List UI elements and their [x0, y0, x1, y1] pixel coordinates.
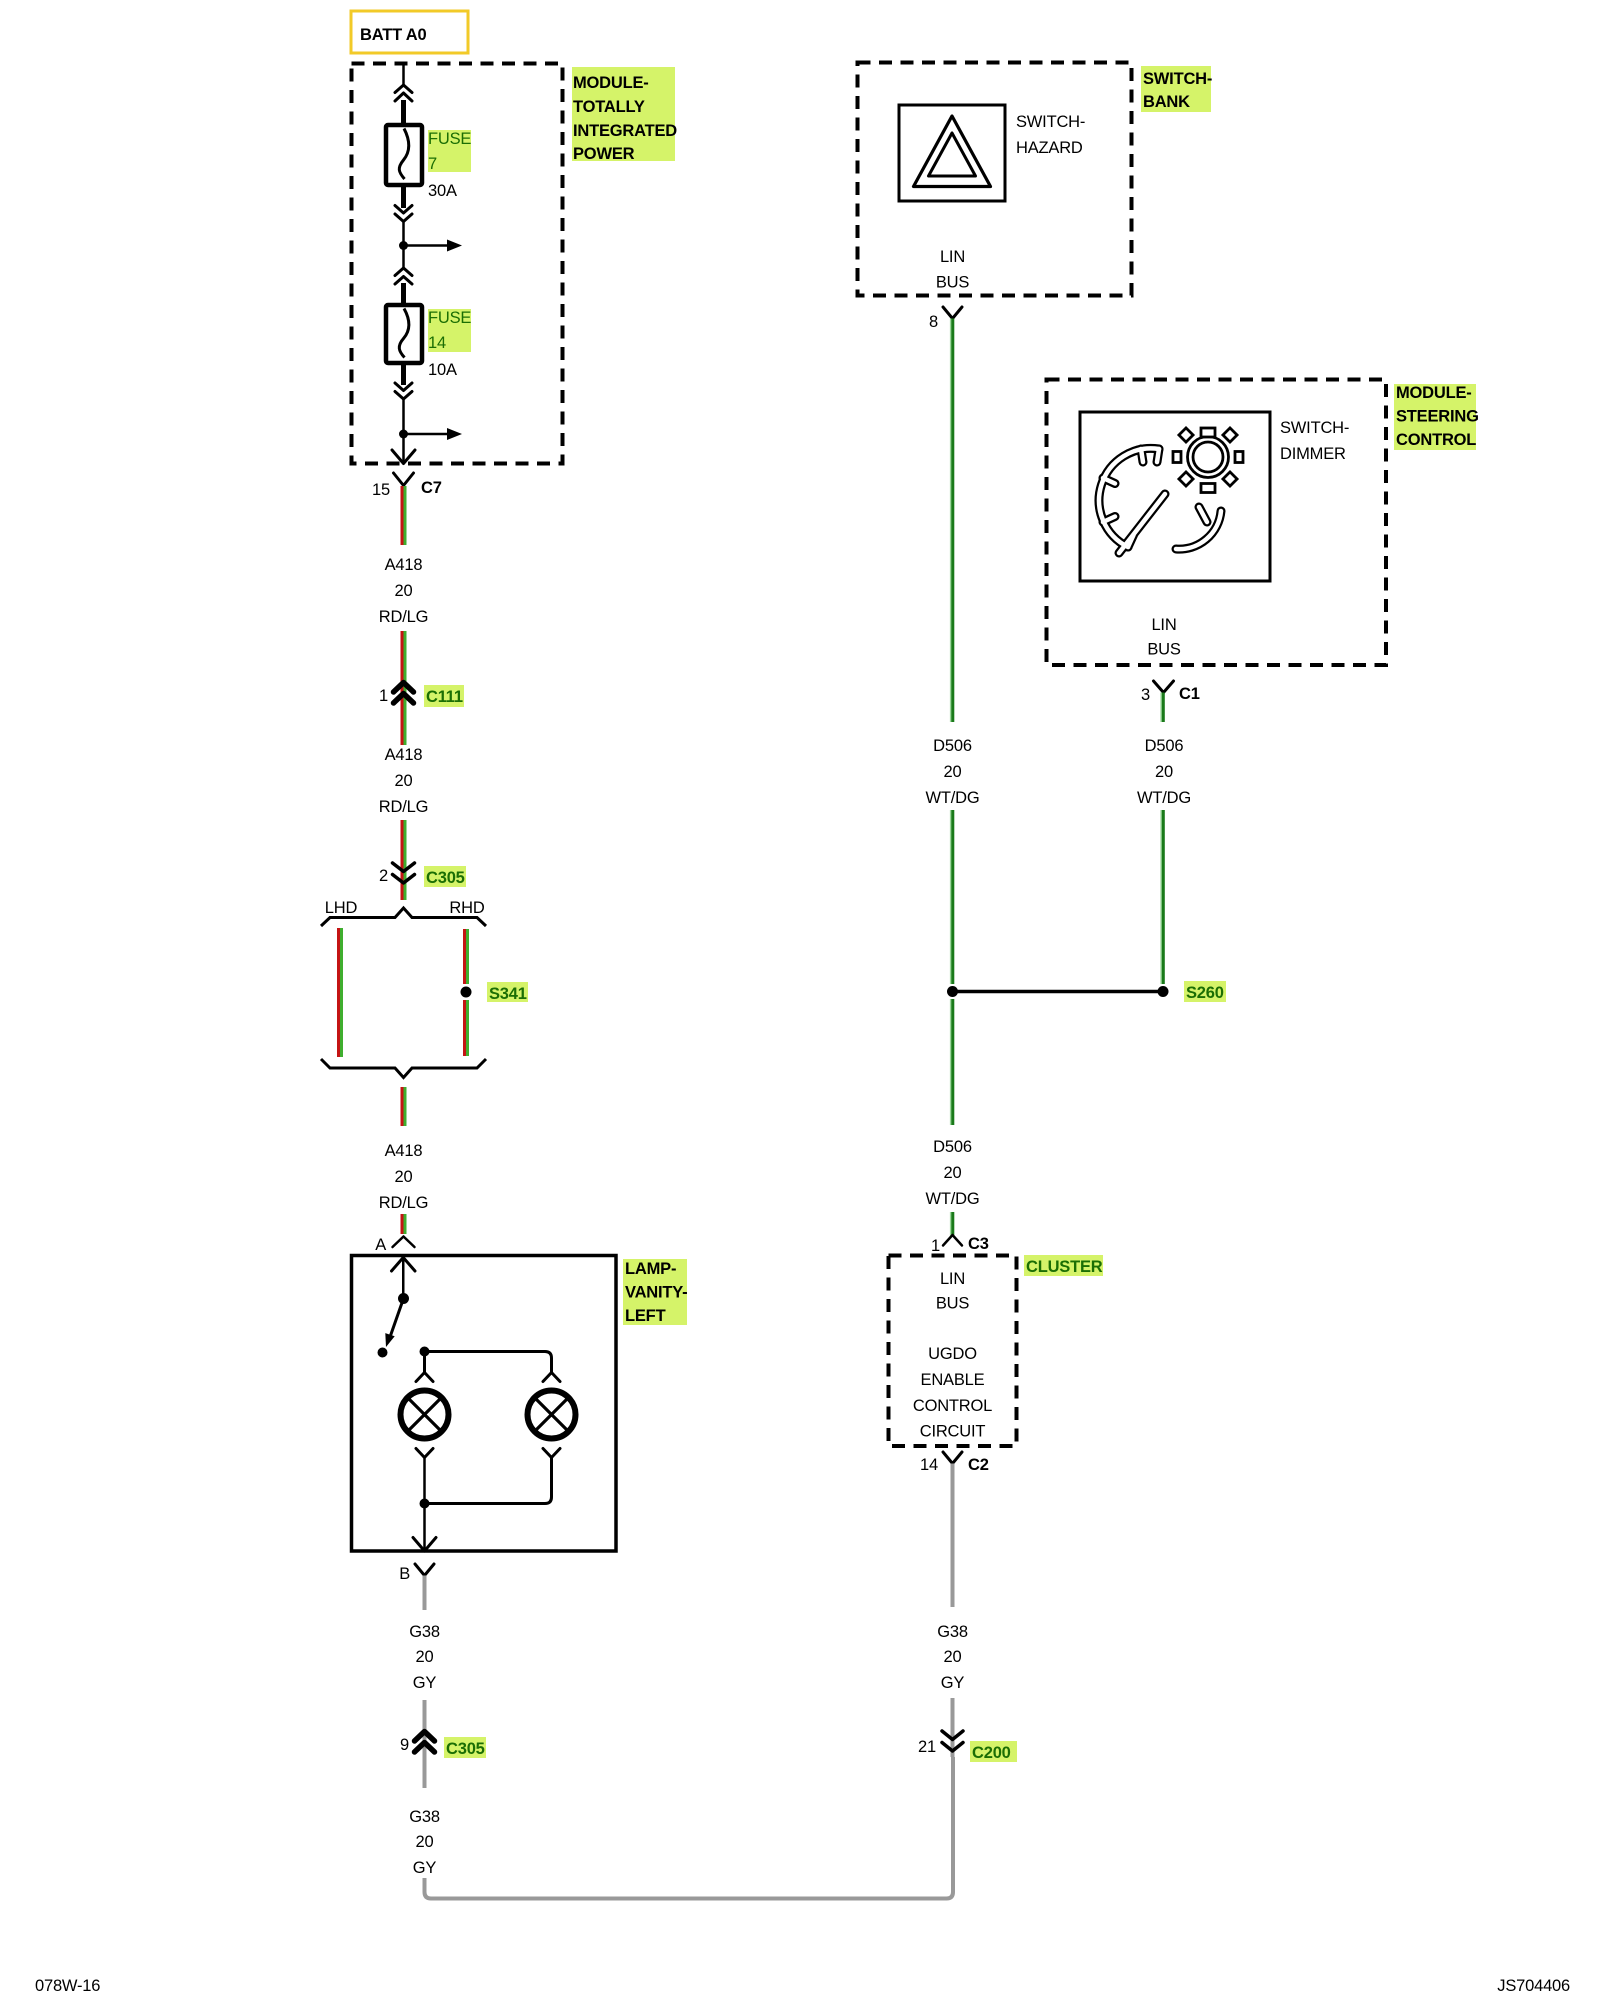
wire to junction — [402, 222, 405, 246]
LIN BUS label in switch-bank — [936, 248, 970, 292]
cluster dashed box — [889, 1256, 1017, 1447]
svg-text:GY: GY — [413, 1674, 437, 1692]
switch-bank label highlight — [1141, 66, 1211, 112]
lamp-vanity-left box — [352, 1256, 617, 1552]
hazard switch caption — [1016, 113, 1085, 157]
svg-text:D506: D506 — [933, 737, 972, 755]
entry arrowhead inside lamp box — [392, 1258, 416, 1272]
svg-text:C3: C3 — [968, 1235, 989, 1253]
svg-text:BUS: BUS — [936, 1295, 970, 1313]
svg-text:078W-16: 078W-16 — [35, 1977, 100, 1995]
svg-text:RD/LG: RD/LG — [379, 1194, 428, 1212]
wire G38 GY segment 1 — [423, 1576, 427, 1611]
connector fork above right lamp — [543, 1373, 560, 1382]
switch blade with motion arrowhead — [385, 1299, 403, 1348]
wire D506 WT/DG to splice — [951, 810, 953, 984]
lamp label text — [625, 1260, 687, 1325]
connector C305 pin 2 — [379, 863, 466, 887]
svg-text:G38: G38 — [937, 1623, 968, 1641]
in-line connector chevrons above fuse 7 — [395, 85, 412, 101]
svg-text:BUS: BUS — [936, 274, 970, 292]
wire D506 WT/DG hazard long segment — [951, 319, 953, 723]
lamp pin B — [399, 1564, 434, 1583]
svg-text:7: 7 — [428, 155, 437, 173]
svg-text:VANITY-: VANITY- — [625, 1284, 687, 1302]
svg-text:CIRCUIT: CIRCUIT — [920, 1423, 986, 1441]
svg-text:20: 20 — [395, 582, 413, 600]
svg-text:A418: A418 — [385, 746, 423, 764]
svg-text:RD/LG: RD/LG — [379, 798, 428, 816]
svg-text:B: B — [399, 1565, 410, 1583]
wire A418 RD/LG segment 1 — [402, 486, 405, 545]
wire to junction below fuse 14 — [402, 399, 405, 434]
svg-text:LAMP-: LAMP- — [625, 1260, 676, 1278]
junction node after fuse 7 — [399, 241, 408, 250]
hazard switch icon — [899, 105, 1005, 201]
wire label D506 20 WT/DG — [926, 1138, 980, 1208]
left lamp return wire — [423, 1458, 426, 1504]
wire to TIPM bottom edge — [402, 434, 405, 462]
top bus wire to right lamp — [425, 1352, 552, 1373]
svg-text:SWITCH-: SWITCH- — [1143, 70, 1212, 88]
LIN BUS label in steering module — [1147, 616, 1181, 659]
wire D506 WT/DG to splice S260 — [1161, 810, 1163, 984]
svg-text:G38: G38 — [409, 1623, 440, 1641]
svg-text:RHD: RHD — [449, 899, 484, 917]
svg-text:21: 21 — [918, 1738, 936, 1756]
connector fork below right lamp — [543, 1449, 560, 1458]
svg-text:WT/DG: WT/DG — [926, 789, 980, 807]
svg-text:BATT A0: BATT A0 — [360, 26, 426, 44]
return junction node — [420, 1499, 430, 1509]
wire A418 RD/LG segment 2 — [402, 631, 405, 745]
svg-text:LEFT: LEFT — [625, 1307, 666, 1325]
svg-text:A418: A418 — [385, 1142, 423, 1160]
switch contact node — [378, 1348, 388, 1358]
wire label D506 20 WT/DG — [1137, 737, 1191, 807]
bottom bus wire from right lamp — [425, 1458, 552, 1504]
LIN BUS label in cluster — [936, 1270, 970, 1313]
svg-text:LHD: LHD — [325, 899, 358, 917]
dimmer switch caption — [1280, 419, 1349, 463]
power feed label BATT A0 — [351, 11, 468, 53]
wire label D506 20 WT/DG — [926, 737, 980, 807]
svg-text:LIN: LIN — [1151, 616, 1176, 634]
svg-text:TOTALLY: TOTALLY — [573, 98, 645, 116]
svg-text:UGDO: UGDO — [928, 1345, 977, 1363]
connector C7 pin 15 — [372, 473, 442, 499]
wire A418 RD/LG below merge — [402, 1087, 405, 1126]
svg-text:9: 9 — [400, 1736, 409, 1754]
wire label G38 20 GY — [409, 1623, 440, 1692]
svg-text:20: 20 — [395, 772, 413, 790]
wire G38 GY to C200 — [951, 1698, 955, 1757]
in-line connector chevrons below fuse 7 — [395, 206, 412, 222]
svg-text:20: 20 — [1155, 763, 1173, 781]
svg-text:INTEGRATED: INTEGRATED — [573, 122, 677, 140]
svg-text:JS704406: JS704406 — [1497, 1977, 1570, 1995]
LHD branch wire RD/LG — [339, 928, 342, 1057]
svg-text:MODULE-: MODULE- — [573, 74, 649, 92]
wire to switch pivot — [402, 1258, 405, 1299]
svg-text:CLUSTER: CLUSTER — [1026, 1258, 1103, 1276]
lamp label highlight — [623, 1259, 687, 1325]
svg-text:2: 2 — [379, 867, 388, 885]
UGDO enable control circuit label — [913, 1345, 992, 1441]
svg-text:POWER: POWER — [573, 145, 635, 163]
svg-text:C305: C305 — [446, 1740, 485, 1758]
switch pivot node — [398, 1293, 409, 1304]
svg-text:C305: C305 — [426, 869, 465, 887]
in-line connector chevrons below fuse 14 — [395, 383, 412, 399]
svg-text:20: 20 — [416, 1833, 434, 1851]
svg-text:DIMMER: DIMMER — [1280, 445, 1346, 463]
TIPM label text — [573, 74, 677, 163]
svg-text:C7: C7 — [421, 479, 442, 497]
svg-text:14: 14 — [920, 1456, 938, 1474]
cluster label highlight — [1024, 1255, 1103, 1276]
wire below fuse 7 — [401, 185, 406, 208]
fuse 14 value labels — [428, 309, 471, 379]
lamp pin A — [375, 1236, 414, 1254]
svg-text:LIN: LIN — [940, 248, 965, 266]
wire D506 WT/DG from C1 — [1161, 693, 1163, 723]
wire label A418 20 RD/LG — [379, 746, 428, 816]
svg-text:D506: D506 — [933, 1138, 972, 1156]
connector C305 pin 9 — [400, 1732, 486, 1759]
svg-text:HAZARD: HAZARD — [1016, 139, 1083, 157]
svg-text:WT/DG: WT/DG — [926, 1190, 980, 1208]
fuse 7 — [386, 125, 422, 185]
svg-text:SWITCH-: SWITCH- — [1280, 419, 1349, 437]
svg-text:20: 20 — [416, 1648, 434, 1666]
RHD branch wire RD/LG lower — [465, 1000, 468, 1056]
fuse 14 — [386, 305, 422, 363]
branch arrow right from fuse 7 node — [404, 240, 463, 252]
wire A418 RD/LG segment 4 — [402, 820, 405, 900]
top split brace — [321, 908, 486, 926]
right vanity bulb — [528, 1391, 576, 1439]
svg-text:8: 8 — [929, 313, 938, 331]
svg-text:STEERING: STEERING — [1396, 408, 1479, 426]
svg-text:20: 20 — [944, 1648, 962, 1666]
connector fork below left lamp — [416, 1449, 433, 1458]
svg-text:SWITCH-: SWITCH- — [1016, 113, 1085, 131]
svg-text:3: 3 — [1141, 686, 1150, 704]
steering control label text — [1396, 384, 1479, 449]
wire label G38 20 GY — [937, 1623, 968, 1692]
arrowhead at TIPM exit — [392, 450, 415, 464]
svg-text:30A: 30A — [428, 182, 457, 200]
switch-bank pin 8 — [929, 307, 962, 331]
connector C200 pin 21 — [918, 1731, 1017, 1762]
wire into fuse 14 — [401, 283, 406, 306]
module totally-integrated-power dashed box — [352, 64, 563, 464]
svg-text:CONTROL: CONTROL — [913, 1397, 992, 1415]
svg-text:A: A — [375, 1236, 386, 1254]
exit arrowhead at lamp box bottom — [413, 1538, 436, 1552]
svg-text:20: 20 — [944, 763, 962, 781]
svg-text:BUS: BUS — [1147, 641, 1181, 659]
lamp feed junction node — [420, 1347, 430, 1357]
svg-text:G38: G38 — [409, 1808, 440, 1826]
splice S260 — [947, 981, 1226, 1002]
left vanity bulb — [401, 1391, 449, 1439]
svg-text:FUSE: FUSE — [428, 130, 471, 148]
svg-text:LIN: LIN — [940, 1270, 965, 1288]
svg-text:FUSE: FUSE — [428, 309, 471, 327]
svg-text:MODULE-: MODULE- — [1396, 384, 1472, 402]
connector fork above left lamp — [416, 1373, 433, 1382]
bottom merge brace — [321, 1059, 486, 1078]
RHD branch wire RD/LG upper — [465, 929, 468, 984]
switch-bank dashed box — [858, 63, 1132, 296]
wire A418 RD/LG into lamp — [402, 1214, 405, 1234]
wire G38 GY from cluster — [951, 1464, 955, 1608]
svg-text:A418: A418 — [385, 556, 423, 574]
svg-text:BANK: BANK — [1143, 93, 1190, 111]
wire label A418 20 RD/LG — [379, 556, 428, 626]
wire below fuse 14 — [401, 363, 406, 385]
svg-text:ENABLE: ENABLE — [921, 1371, 985, 1389]
svg-text:WT/DG: WT/DG — [1137, 789, 1191, 807]
svg-text:S260: S260 — [1186, 984, 1224, 1002]
connector C2 pin 14 — [920, 1452, 989, 1474]
dimmer switch icon — [1080, 412, 1270, 581]
wire to lamp box exit — [423, 1504, 426, 1551]
wire into fuse 7 — [401, 100, 406, 126]
wire label G38 20 GY — [409, 1808, 440, 1877]
svg-text:GY: GY — [413, 1859, 437, 1877]
stem to left lamp — [423, 1352, 426, 1373]
junction node after fuse 14 — [399, 430, 408, 439]
svg-text:1: 1 — [931, 1237, 940, 1255]
svg-text:S341: S341 — [489, 985, 527, 1003]
branch arrow right from fuse 14 node — [404, 428, 463, 440]
module-steering-control dashed box — [1047, 380, 1387, 666]
TIPM label highlight — [572, 67, 675, 161]
wire D506 WT/DG below splice — [951, 999, 953, 1125]
svg-text:C1: C1 — [1179, 685, 1200, 703]
svg-text:15: 15 — [372, 481, 390, 499]
steering control label highlight — [1394, 384, 1476, 450]
wire from BATT A0 into TIPM — [402, 64, 405, 86]
svg-text:C200: C200 — [972, 1744, 1011, 1762]
wire from junction down — [402, 246, 405, 269]
connector C3 pin 1 — [931, 1235, 989, 1255]
wire label A418 20 RD/LG — [379, 1142, 428, 1212]
svg-text:RD/LG: RD/LG — [379, 608, 428, 626]
svg-text:C2: C2 — [968, 1456, 989, 1474]
in-line connector chevrons above fuse 14 — [395, 268, 412, 284]
splice S341 — [461, 982, 529, 1003]
svg-text:20: 20 — [944, 1164, 962, 1182]
svg-text:14: 14 — [428, 334, 446, 352]
svg-text:1: 1 — [379, 687, 388, 705]
svg-text:20: 20 — [395, 1168, 413, 1186]
connector C1 pin 3 — [1141, 681, 1200, 704]
fuse 7 value labels — [428, 130, 471, 200]
switch-bank label text — [1143, 70, 1212, 111]
wire G38 GY segment 2 — [423, 1700, 427, 1788]
ground run wire G38 across bottom — [425, 1757, 954, 1899]
svg-text:D506: D506 — [1145, 737, 1184, 755]
wire D506 WT/DG into cluster — [951, 1212, 953, 1237]
connector C111 pin 1 — [379, 683, 464, 708]
svg-text:GY: GY — [941, 1674, 965, 1692]
svg-text:10A: 10A — [428, 361, 457, 379]
svg-text:CONTROL: CONTROL — [1396, 431, 1476, 449]
svg-text:C111: C111 — [426, 688, 463, 706]
